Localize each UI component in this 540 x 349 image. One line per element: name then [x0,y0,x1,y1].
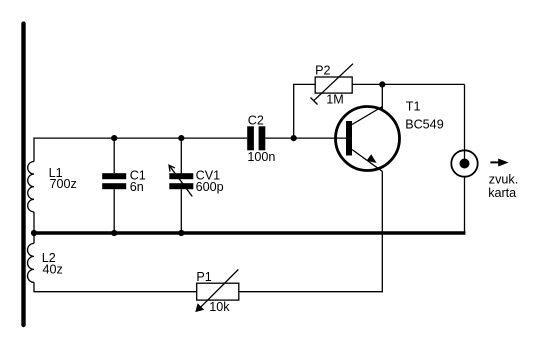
ground rail [34,231,465,235]
wire top-left vertical to L1 [34,138,247,161]
svg-text:C2: C2 [248,114,264,128]
svg-text:zvuk.: zvuk. [489,173,518,187]
svg-text:700z: 700z [50,177,77,191]
variable capacitor CV1 [169,173,193,179]
svg-text:P2: P2 [315,64,330,78]
transistor T1 [336,107,400,171]
svg-text:karta: karta [488,186,516,200]
potentiometer P1 [197,283,239,300]
svg-text:P1: P1 [196,270,211,284]
emitter arrowhead [367,154,377,163]
wire L1 bottom to rail [33,212,35,233]
wire C2 to base [265,137,346,139]
wire P2 right [352,83,464,85]
junction CV1 bottom on rail [178,230,184,236]
wire L2 top from rail [33,233,35,243]
wire C1 top [113,138,115,173]
wire CV1 top [180,138,182,174]
P2 arrow [314,64,353,101]
svg-text:6n: 6n [130,180,144,194]
inductor L1 [28,162,34,212]
junction C1 top [111,135,117,141]
capacitor C2 [247,126,254,150]
wire right vertical top [464,84,466,163]
output arrow [490,161,499,163]
wire CV1 bottom [180,189,182,233]
svg-text:T1: T1 [406,100,421,114]
capacitor C1 [102,173,126,179]
wire emitter down to P1 [239,172,382,292]
connector jack [451,150,477,176]
svg-text:600p: 600p [196,180,224,194]
junction CV1 top [178,135,184,141]
inductor L2 [28,243,34,282]
potentiometer P2 [315,77,352,93]
P1 arrow [200,270,239,309]
junction C1 bottom on rail [111,230,117,236]
wire collector up [381,84,383,110]
wire right vertical bottom [464,177,466,233]
wire C1 bottom [113,189,115,233]
CV1 arrow [169,165,192,196]
wire P2 branch up [294,84,316,138]
svg-text:1M: 1M [326,93,344,107]
junction L1/L2 on rail [31,230,37,236]
svg-text:BC549: BC549 [405,118,444,132]
svg-text:100n: 100n [247,150,275,164]
junction C2/P2 branch [291,135,297,141]
wire L2 bottom corner [34,282,197,291]
svg-text:40z: 40z [43,263,63,277]
junction collector/P2/output [379,81,385,87]
svg-text:10k: 10k [209,300,230,314]
antenna bar [21,24,25,325]
